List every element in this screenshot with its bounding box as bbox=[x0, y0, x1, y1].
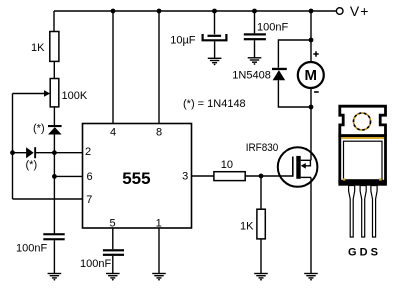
node pin4 rail bbox=[111, 9, 116, 14]
svg-text:(*): (*) bbox=[26, 159, 38, 171]
svg-text:5: 5 bbox=[109, 217, 115, 229]
wire 1K to ground bbox=[260, 239, 262, 273]
resistor R3 1K bbox=[257, 209, 265, 239]
wire wiper bbox=[13, 93, 45, 95]
wiper arrow bbox=[44, 90, 50, 96]
resistor R2 10 bbox=[214, 172, 245, 181]
svg-text:8: 8 bbox=[156, 126, 162, 138]
TO-220 gold corner specks bbox=[343, 178, 346, 180]
svg-text:2: 2 bbox=[85, 146, 91, 158]
ground timing cap bbox=[48, 274, 62, 281]
svg-text:100nF: 100nF bbox=[16, 243, 47, 255]
capacitor C4 100nF top bbox=[254, 11, 256, 33]
wire pot bottom bbox=[53, 107, 55, 125]
capacitor C1 100nF timing bbox=[43, 233, 64, 235]
node left rail junction bbox=[10, 150, 15, 155]
node pin2 junction bbox=[52, 150, 57, 155]
node motor rail bbox=[309, 9, 314, 14]
capacitor C2 100nF pin5 bbox=[103, 249, 124, 251]
ground pin5 cap bbox=[106, 274, 120, 281]
wire diode to node bbox=[53, 135, 55, 153]
minus label bbox=[314, 91, 319, 93]
wire timing cap to ground bbox=[53, 240, 55, 273]
potentiometer P1 100K bbox=[50, 79, 59, 107]
svg-text:100K: 100K bbox=[62, 90, 88, 102]
diode D1 (*) vertical bbox=[48, 125, 62, 127]
svg-text:IRF830: IRF830 bbox=[246, 142, 279, 154]
node pin6 junction bbox=[52, 174, 57, 179]
pin 5 bbox=[112, 228, 114, 249]
wire node to timing cap bbox=[53, 153, 55, 234]
capacitor C3 10uF bbox=[214, 11, 216, 34]
TO-220 bottom band bbox=[338, 180, 387, 186]
ground 1K bbox=[254, 274, 268, 281]
TO-220 gold line bbox=[341, 137, 384, 139]
TO-220 leg D bbox=[360, 186, 366, 238]
resistor R1 1K bbox=[50, 32, 59, 62]
bulk arrow bbox=[305, 160, 311, 166]
svg-text:1N5408: 1N5408 bbox=[232, 70, 271, 82]
node pin8 rail bbox=[157, 9, 162, 14]
svg-text:1: 1 bbox=[156, 217, 162, 229]
diode D2 (*) horizontal bbox=[26, 147, 34, 158]
ground mosfet bbox=[304, 274, 318, 281]
wire resistor to gate bbox=[245, 175, 293, 177]
svg-text:100nF: 100nF bbox=[80, 258, 111, 270]
svg-text:G D S: G D S bbox=[348, 247, 378, 259]
wire pin5 cap to ground bbox=[112, 256, 114, 273]
wire diode branch bbox=[278, 40, 311, 107]
wire 1K top bbox=[53, 11, 55, 32]
TO-220 body bbox=[340, 136, 386, 182]
svg-text:(*) = 1N4148: (*) = 1N4148 bbox=[183, 98, 246, 110]
svg-text:3: 3 bbox=[182, 171, 188, 183]
source stub bbox=[301, 176, 311, 178]
svg-text:4: 4 bbox=[110, 126, 116, 138]
svg-text:6: 6 bbox=[86, 171, 92, 183]
TO-220 package tab bbox=[340, 106, 386, 136]
motor M1 bbox=[298, 62, 324, 88]
ground 100nF bbox=[248, 58, 262, 65]
node 100nF rail bbox=[252, 9, 257, 14]
TO-220 inner body rect bbox=[344, 141, 383, 180]
svg-text:10: 10 bbox=[221, 159, 233, 171]
wire 1K to pot bbox=[53, 61, 55, 78]
drain stub bbox=[301, 159, 311, 161]
wire pin2 right segment bbox=[36, 152, 83, 154]
wire node to 1K bbox=[260, 176, 262, 209]
pin 8 bbox=[158, 11, 160, 124]
op-amp U1 555 box bbox=[83, 124, 192, 229]
node 10uF rail bbox=[212, 9, 217, 14]
ground pin1 bbox=[152, 274, 166, 281]
node diode branch top bbox=[309, 38, 314, 43]
plus label bbox=[313, 51, 318, 56]
svg-text:V+: V+ bbox=[350, 3, 369, 19]
TO-220 mounting hole bbox=[354, 113, 371, 130]
wire top rail V+ bbox=[54, 10, 336, 12]
ground 10uF bbox=[208, 58, 222, 65]
wire motor bottom bbox=[310, 88, 312, 160]
TO-220 leg S bbox=[371, 186, 377, 238]
wire left rail bbox=[12, 94, 14, 200]
wire mosfet source to ground bbox=[310, 177, 312, 273]
svg-text:10µF: 10µF bbox=[170, 35, 196, 47]
channel bar bbox=[296, 156, 300, 179]
svg-text:7: 7 bbox=[86, 194, 92, 206]
wire pin2 left segment bbox=[13, 152, 27, 154]
TO-220 leg G bbox=[349, 186, 355, 238]
pin 1 bbox=[158, 228, 160, 273]
wire pin6 bbox=[54, 175, 82, 177]
svg-text:(*): (*) bbox=[33, 123, 45, 135]
svg-text:M: M bbox=[305, 67, 318, 84]
svg-text:1K: 1K bbox=[31, 42, 45, 54]
diode D3 1N5408 bbox=[272, 68, 287, 70]
pin 4 bbox=[112, 11, 114, 124]
node gate junction bbox=[259, 174, 264, 179]
gate plate bbox=[292, 157, 294, 177]
node motor bottom junction bbox=[309, 105, 314, 110]
wire pin7 bbox=[13, 198, 83, 200]
terminal V+ bbox=[336, 8, 343, 15]
wire motor branch top bbox=[310, 11, 312, 62]
svg-text:1K: 1K bbox=[240, 220, 254, 232]
svg-text:555: 555 bbox=[122, 169, 150, 188]
svg-text:100nF: 100nF bbox=[257, 21, 288, 33]
wire pin3 bbox=[192, 175, 214, 177]
